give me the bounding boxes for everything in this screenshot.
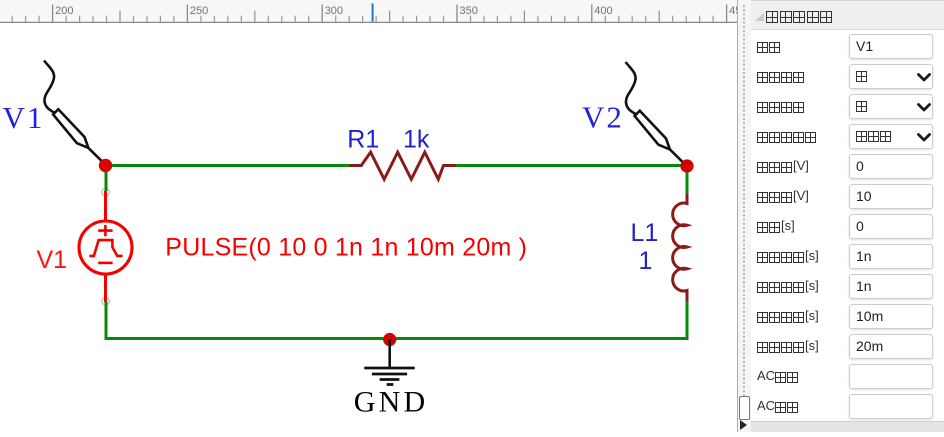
node A (left junction) — [99, 159, 112, 172]
terminal ring source top — [102, 189, 110, 197]
wire right vertical lower — [686, 301, 689, 340]
terminal ring source bottom — [102, 297, 110, 305]
wire left vertical lower — [105, 302, 108, 340]
svg-text:1: 1 — [639, 247, 653, 275]
svg-text:450: 450 — [729, 5, 737, 17]
svg-text:L1: L1 — [631, 219, 659, 247]
svg-text:R1: R1 — [347, 126, 379, 154]
svg-text:V1: V1 — [3, 100, 45, 135]
probe V1 — [44, 61, 105, 164]
node B (right junction) — [680, 159, 693, 172]
probe V2 — [626, 62, 687, 165]
svg-text:1k: 1k — [403, 126, 430, 154]
svg-text:200: 200 — [55, 5, 73, 17]
svg-text:V2: V2 — [582, 100, 624, 135]
svg-text:PULSE(0 10 0 1n 1n 10m 20m ): PULSE(0 10 0 1n 1n 10m 20m ) — [165, 234, 527, 262]
svg-text:250: 250 — [190, 5, 208, 17]
ruler — [0, 0, 737, 23]
wire top-right segment — [456, 164, 687, 167]
inductor L1 — [673, 194, 687, 301]
svg-text:350: 350 — [460, 5, 478, 17]
voltage source V1 — [79, 191, 132, 302]
ground — [364, 340, 414, 385]
svg-text:300: 300 — [325, 5, 343, 17]
node G (ground junction) — [383, 333, 396, 346]
resistor R1 — [349, 152, 456, 179]
wire left vertical upper — [105, 166, 108, 192]
wire top-left segment — [106, 164, 349, 167]
wire right vertical upper — [686, 166, 689, 195]
wire bottom segment — [105, 337, 689, 340]
svg-text:GND: GND — [354, 386, 429, 419]
svg-text:400: 400 — [594, 5, 612, 17]
svg-text:V1: V1 — [37, 246, 68, 274]
